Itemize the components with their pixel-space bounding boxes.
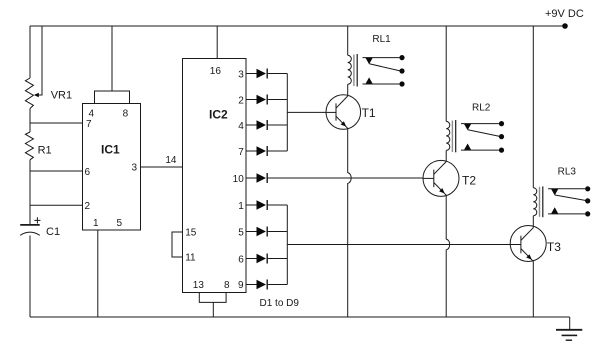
svg-text:5: 5 (117, 218, 123, 229)
svg-text:15: 15 (185, 228, 197, 239)
svg-text:7: 7 (238, 147, 244, 158)
svg-text:T1: T1 (362, 106, 376, 120)
svg-text:3: 3 (131, 163, 137, 174)
svg-text:3: 3 (238, 69, 244, 80)
svg-text:6: 6 (238, 254, 244, 265)
svg-text:2: 2 (238, 95, 244, 106)
svg-text:+9V DC: +9V DC (545, 8, 584, 20)
svg-text:7: 7 (86, 119, 92, 130)
svg-text:RL2: RL2 (472, 102, 491, 113)
svg-text:D1 to D9: D1 to D9 (260, 298, 300, 309)
svg-text:VR1: VR1 (51, 90, 72, 102)
svg-text:16: 16 (210, 66, 222, 77)
svg-text:4: 4 (238, 121, 244, 132)
svg-text:9: 9 (238, 280, 244, 291)
svg-text:C1: C1 (46, 226, 60, 238)
svg-text:IC2: IC2 (209, 107, 228, 121)
svg-text:5: 5 (238, 227, 244, 238)
svg-text:IC1: IC1 (101, 142, 120, 156)
svg-text:11: 11 (185, 253, 196, 264)
svg-text:RL1: RL1 (372, 34, 391, 45)
svg-text:8: 8 (224, 280, 230, 291)
svg-text:13: 13 (193, 280, 205, 291)
svg-text:1: 1 (93, 218, 99, 229)
svg-text:14: 14 (165, 155, 177, 166)
svg-text:2: 2 (85, 201, 91, 212)
svg-text:RL3: RL3 (558, 167, 577, 178)
svg-text:6: 6 (85, 167, 91, 178)
svg-text:R1: R1 (38, 144, 52, 156)
svg-text:10: 10 (233, 174, 245, 185)
svg-text:8: 8 (123, 109, 129, 120)
svg-text:T3: T3 (547, 240, 561, 254)
svg-text:1: 1 (238, 201, 244, 212)
svg-text:T2: T2 (462, 173, 476, 187)
